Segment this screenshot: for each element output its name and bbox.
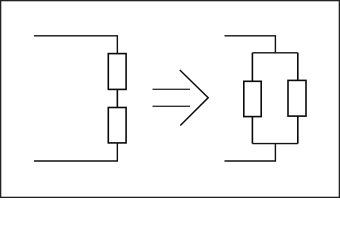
- wire: parallel circuit bottom lead: [225, 144, 276, 161]
- wire: right branch bottom lead: [297, 116, 299, 144]
- wire: parallel bottom bar: [252, 143, 297, 145]
- arrow: chevron head: [180, 70, 208, 126]
- wire: series circuit top lead: [34, 36, 117, 54]
- resistor R1: [108, 54, 126, 90]
- wire: series middle link: [116, 89, 118, 107]
- wire: parallel top bar: [252, 52, 297, 54]
- wire: parallel circuit top lead: [225, 36, 276, 53]
- wire: series circuit bottom lead: [34, 143, 117, 161]
- arrow: upper shaft line: [153, 88, 191, 90]
- resistor R4: [288, 80, 306, 116]
- wire: right branch top lead: [297, 53, 299, 81]
- wire: left branch top lead: [251, 53, 253, 82]
- arrow: lower shaft line: [153, 105, 191, 107]
- resistor R3: [244, 81, 261, 116]
- resistor R2: [108, 108, 126, 143]
- wire: left branch bottom lead: [251, 117, 253, 144]
